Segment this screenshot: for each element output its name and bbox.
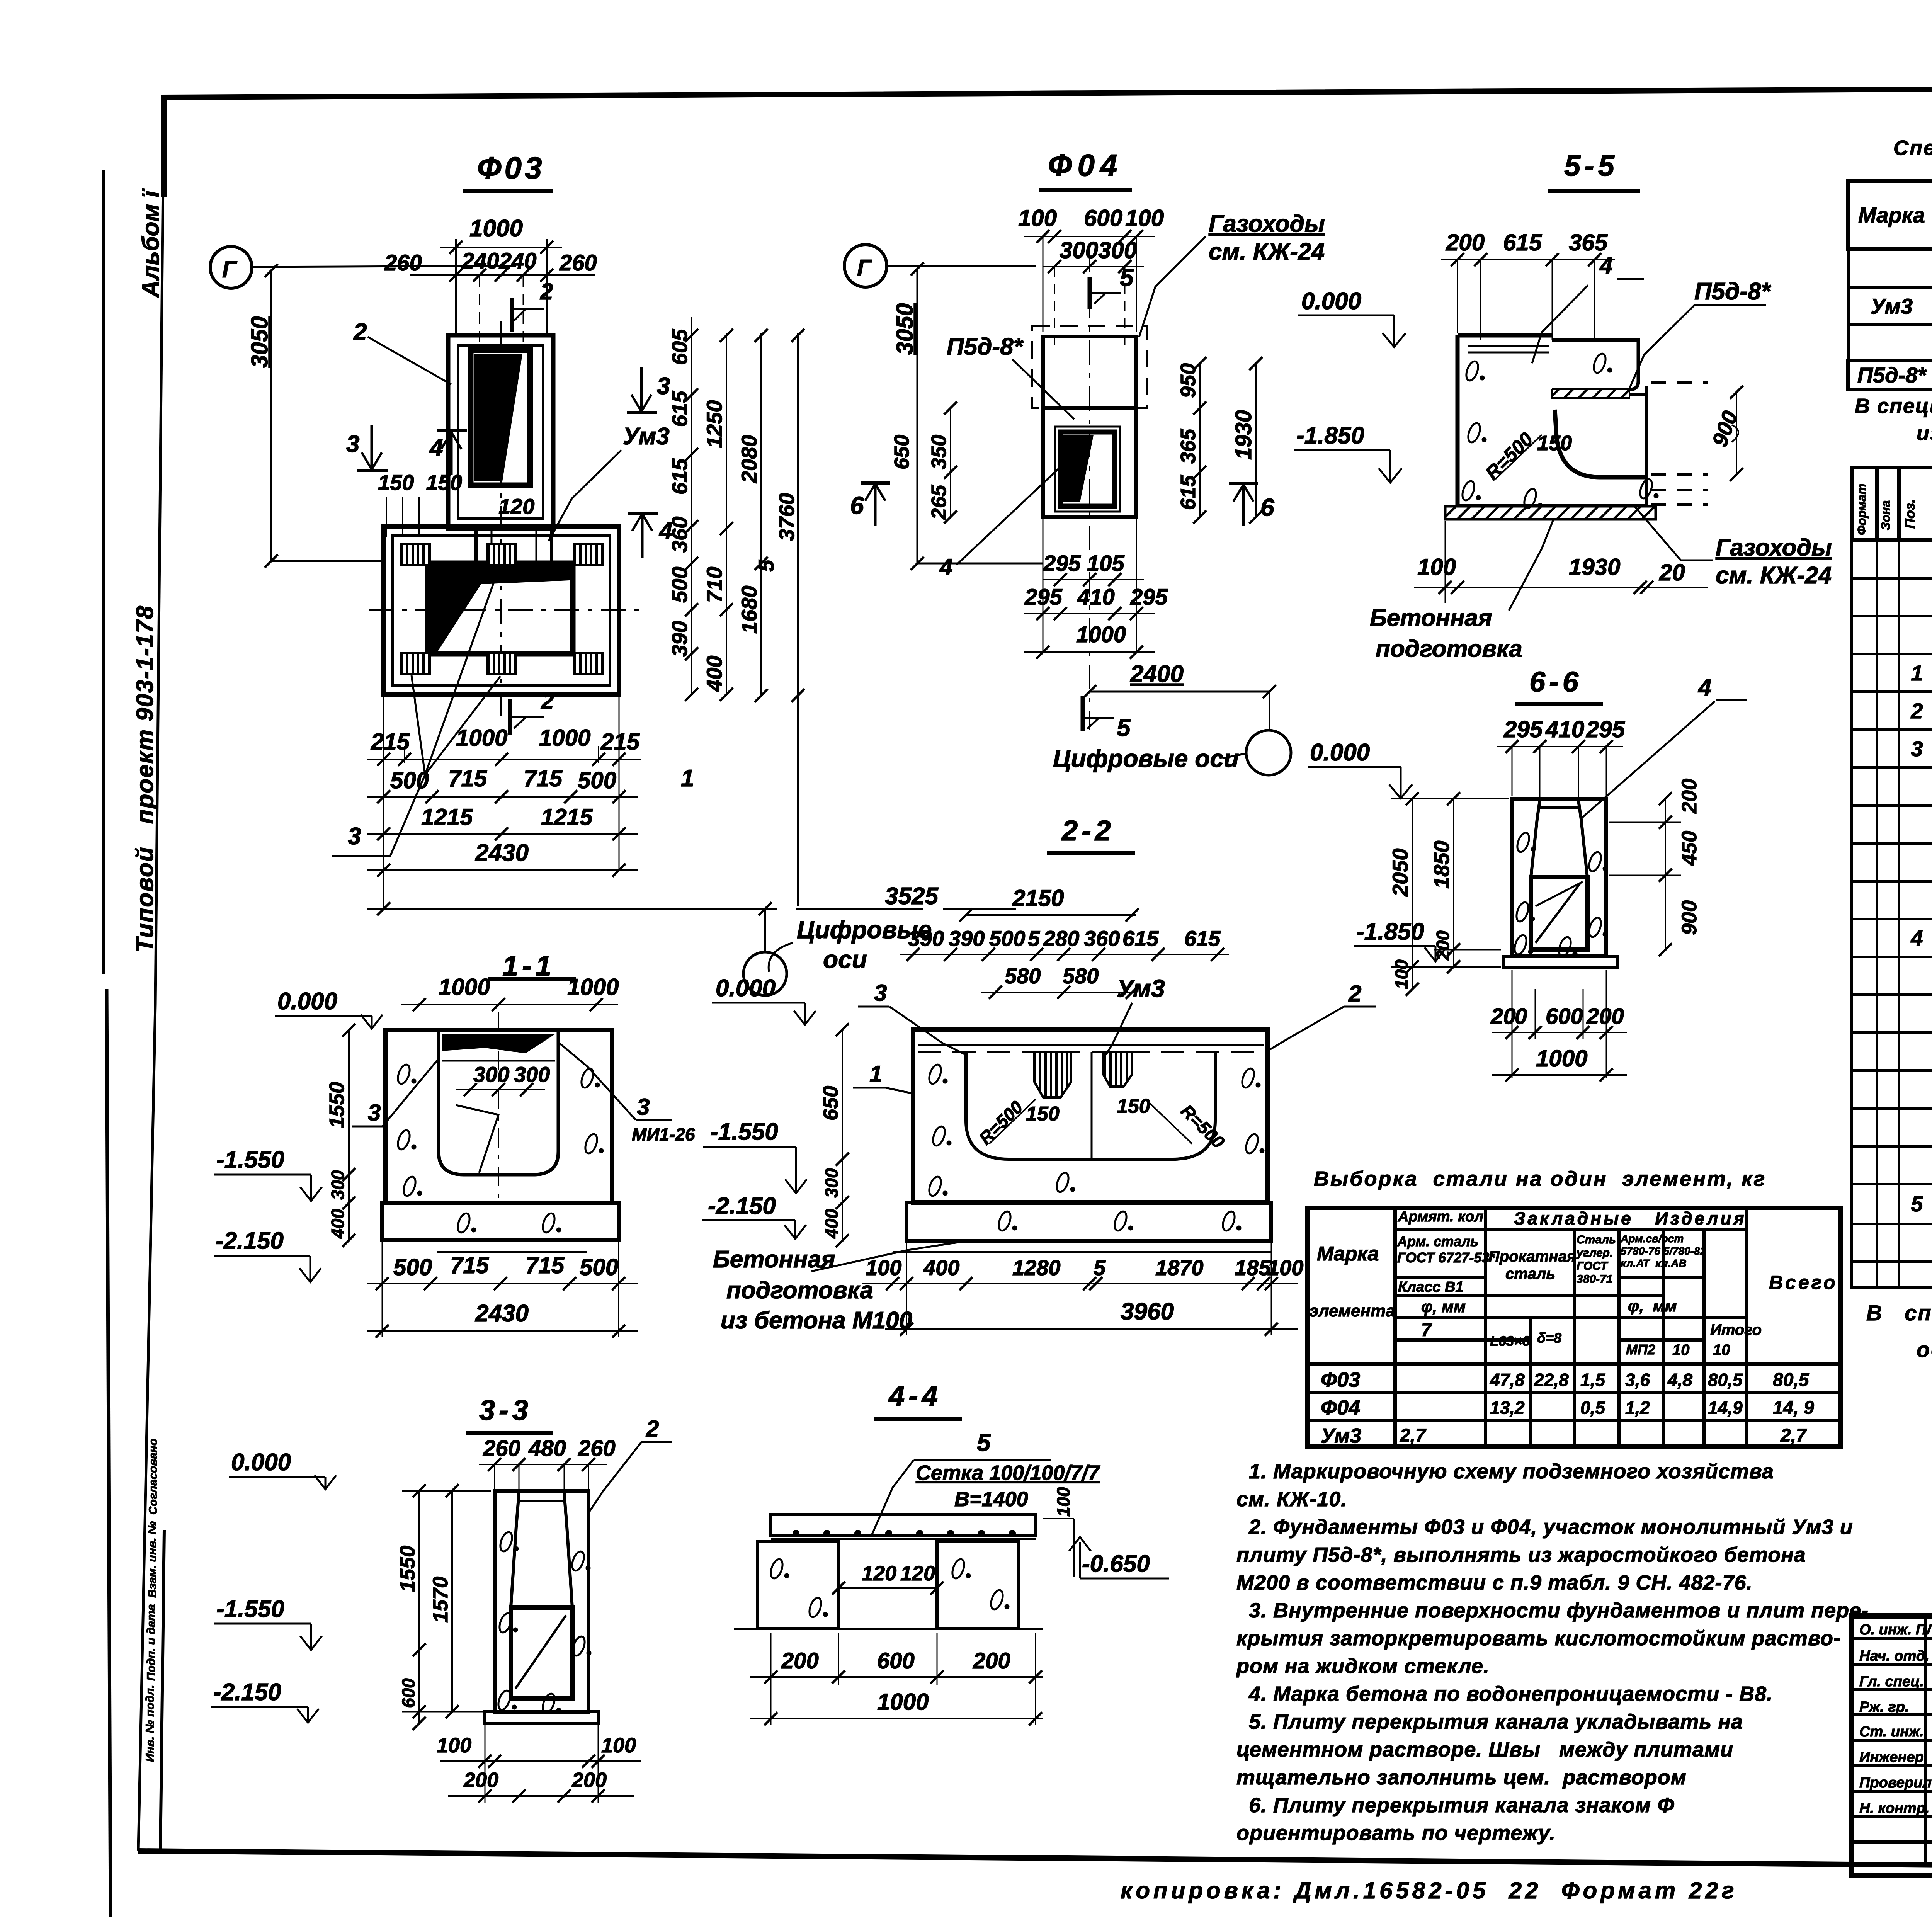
svg-text:900: 900 [1678,900,1701,935]
svg-text:см. КЖ-24: см. КЖ-24 [1209,238,1325,265]
svg-text:1930: 1930 [1231,410,1256,460]
svg-text:МИ1-26: МИ1-26 [632,1124,695,1145]
svg-text:П5д-8*: П5д-8* [947,333,1024,360]
svg-text:5: 5 [977,1429,991,1456]
svg-text:-1.850: -1.850 [1356,918,1424,945]
svg-text:1850: 1850 [1429,840,1454,889]
svg-text:100: 100 [1267,1255,1303,1280]
svg-text:500: 500 [580,1254,618,1280]
svg-text:1570: 1570 [429,1577,452,1623]
svg-text:950: 950 [1177,363,1200,398]
svg-text:100: 100 [1125,205,1164,231]
svg-text:615: 615 [1122,926,1159,951]
svg-text:265: 265 [927,485,951,520]
svg-text:5: 5 [1028,926,1040,951]
svg-text:580: 580 [1063,964,1099,988]
svg-text:360: 360 [1084,926,1120,951]
svg-text:480: 480 [528,1436,566,1461]
svg-text:0.000: 0.000 [1310,739,1370,766]
svg-text:100: 100 [437,1734,471,1757]
svg-text:200: 200 [1446,230,1485,255]
svg-text:-2.150: -2.150 [213,1679,281,1706]
svg-text:Цифровые: Цифровые [797,916,932,944]
svg-text:450: 450 [1678,831,1701,866]
svg-text:390: 390 [667,621,692,657]
svg-text:100: 100 [1053,1487,1073,1517]
svg-text:R=500: R=500 [1481,428,1537,484]
svg-text:600: 600 [1546,1004,1583,1029]
svg-text:Ум3: Ум3 [623,423,670,450]
svg-text:400: 400 [702,656,726,692]
svg-text:Ум3: Ум3 [1117,975,1165,1002]
svg-text:615: 615 [667,391,692,427]
svg-text:1000: 1000 [567,974,619,1000]
svg-text:120: 120 [900,1562,935,1585]
svg-text:710: 710 [702,567,726,603]
svg-text:4: 4 [1697,674,1711,701]
svg-text:-2.150: -2.150 [216,1228,284,1254]
svg-text:715: 715 [524,765,563,791]
svg-text:500: 500 [390,767,429,793]
svg-text:100: 100 [1417,554,1456,580]
svg-text:615: 615 [1184,926,1221,951]
svg-text:из бетона М100: из бетона М100 [721,1307,912,1334]
svg-text:-1.550: -1.550 [710,1119,778,1145]
svg-text:605: 605 [667,329,692,365]
svg-text:20: 20 [1659,560,1685,585]
svg-text:Газоходы: Газоходы [1716,534,1832,561]
svg-text:3: 3 [368,1100,381,1126]
svg-text:410: 410 [1077,585,1115,610]
svg-text:150: 150 [1537,432,1572,455]
svg-text:Ф04: Ф04 [1048,148,1122,182]
svg-text:Сетка 100/100/7/7: Сетка 100/100/7/7 [916,1461,1100,1485]
svg-text:1280: 1280 [1012,1255,1061,1280]
svg-text:Газоходы: Газоходы [1209,211,1325,237]
svg-text:260: 260 [483,1436,520,1461]
svg-text:6: 6 [1260,493,1274,521]
svg-text:0.000: 0.000 [1301,288,1361,315]
svg-text:580: 580 [1005,964,1041,988]
svg-text:3760: 3760 [774,493,799,541]
svg-text:1000: 1000 [469,215,523,242]
svg-text:200: 200 [1678,779,1701,814]
svg-text:3: 3 [874,980,887,1006]
svg-text:0.000: 0.000 [277,988,337,1015]
svg-text:715: 715 [448,765,488,791]
svg-text:6: 6 [850,492,864,519]
svg-text:360: 360 [667,517,692,553]
svg-text:5: 5 [1094,1255,1106,1280]
svg-text:3050: 3050 [247,316,272,368]
svg-text:2: 2 [541,688,554,714]
svg-text:215: 215 [371,729,410,755]
svg-text:R=500: R=500 [1177,1100,1229,1152]
svg-text:0: 0 [1515,1004,1527,1029]
svg-text:1550: 1550 [396,1546,419,1592]
svg-text:200: 200 [463,1769,498,1792]
svg-text:615: 615 [1503,230,1543,255]
svg-text:100: 100 [1391,959,1412,989]
svg-text:5: 5 [1117,714,1131,742]
svg-text:500: 500 [578,767,616,793]
svg-text:подготовка: подготовка [1376,636,1522,662]
svg-text:-1.850: -1.850 [1296,422,1364,449]
svg-text:365: 365 [1569,230,1608,255]
svg-text:400: 400 [821,1209,842,1239]
svg-text:Бетонная: Бетонная [713,1246,835,1273]
svg-text:600: 600 [398,1678,418,1708]
svg-text:150 150: 150 150 [378,470,462,495]
svg-text:см. КЖ-24: см. КЖ-24 [1716,562,1832,589]
svg-text:1: 1 [869,1061,882,1087]
svg-text:295 105: 295 105 [1043,551,1124,576]
svg-text:185: 185 [1235,1255,1271,1280]
svg-text:4: 4 [939,554,952,580]
svg-text:200: 200 [781,1648,819,1673]
svg-text:615: 615 [1177,475,1200,510]
svg-text:R=500: R=500 [975,1097,1027,1148]
svg-text:-2.150: -2.150 [708,1193,776,1219]
svg-text:1000: 1000 [539,725,590,751]
svg-text:2: 2 [540,279,553,304]
svg-text:650: 650 [890,435,913,469]
svg-text:Цифровые оси: Цифровые оси [1053,745,1239,772]
svg-text:215: 215 [600,729,640,755]
svg-text:500: 500 [989,926,1025,951]
svg-text:600: 600 [877,1648,915,1673]
svg-text:100: 100 [866,1255,901,1280]
svg-text:1000: 1000 [439,974,490,1000]
svg-text:1215: 1215 [421,804,473,830]
svg-text:260: 260 [578,1436,616,1461]
svg-text:3: 3 [348,823,361,850]
svg-text:1000: 1000 [877,1689,929,1715]
svg-text:1-1: 1-1 [502,950,555,982]
svg-text:600: 600 [1084,205,1122,231]
svg-text:Ф03: Ф03 [477,151,545,185]
svg-text:1870: 1870 [1155,1255,1204,1280]
svg-text:2: 2 [1348,981,1361,1007]
svg-text:2150: 2150 [1012,885,1064,911]
svg-text:3: 3 [346,431,359,457]
svg-text:400: 400 [923,1255,959,1280]
svg-text:200: 200 [1586,1004,1624,1029]
svg-text:500: 500 [393,1254,432,1280]
svg-text:5: 5 [1120,264,1134,291]
svg-text:1215: 1215 [541,804,593,830]
svg-text:1680: 1680 [737,585,761,634]
svg-text:295: 295 [1503,716,1543,742]
svg-text:6-6: 6-6 [1529,666,1582,698]
svg-text:3050: 3050 [892,303,918,355]
svg-text:120: 120 [862,1562,896,1585]
svg-text:280: 280 [1043,926,1079,951]
svg-text:Бетонная: Бетонная [1370,605,1492,631]
svg-text:100: 100 [601,1734,636,1757]
svg-text:2050: 2050 [1388,848,1412,897]
svg-text:4-4: 4-4 [888,1380,942,1412]
svg-text:1250: 1250 [702,400,726,448]
svg-text:1930: 1930 [1569,554,1620,580]
svg-text:0.000: 0.000 [231,1449,291,1476]
svg-text:В=1400: В=1400 [954,1488,1028,1511]
svg-text:500: 500 [667,567,692,603]
svg-text:5: 5 [754,560,778,572]
svg-text:2-2: 2-2 [1061,815,1115,847]
svg-text:2430: 2430 [475,1300,529,1327]
svg-text:650: 650 [819,1086,842,1121]
svg-text:2: 2 [646,1416,659,1442]
svg-text:П5д-8*: П5д-8* [1694,278,1772,305]
svg-text:подготовка: подготовка [726,1277,873,1304]
svg-text:1000: 1000 [1536,1046,1587,1071]
svg-text:Г: Г [857,255,872,281]
svg-text:1550: 1550 [325,1082,349,1128]
svg-text:390: 390 [949,926,985,951]
svg-text:2400: 2400 [1130,661,1184,687]
svg-text:2: 2 [353,319,367,345]
svg-text:1: 1 [681,765,694,792]
svg-text:295: 295 [1586,716,1626,742]
svg-text:295: 295 [1130,585,1168,610]
svg-text:120: 120 [498,494,534,519]
svg-text:2080: 2080 [737,435,761,483]
svg-text:3960: 3960 [1121,1298,1174,1325]
svg-text:260: 260 [384,250,422,276]
svg-text:240240: 240240 [461,248,537,274]
svg-text:400: 400 [328,1209,348,1239]
svg-text:615: 615 [667,458,692,495]
svg-text:300: 300 [821,1168,842,1198]
svg-text:350: 350 [927,435,951,469]
svg-text:0.000: 0.000 [716,975,776,1002]
svg-text:100: 100 [1018,205,1057,231]
svg-text:150: 150 [1117,1095,1150,1117]
svg-text:715: 715 [526,1252,565,1278]
svg-text:3: 3 [637,1094,650,1120]
svg-text:300: 300 [328,1170,348,1200]
svg-text:-1.550: -1.550 [216,1596,284,1622]
svg-text:3-3: 3-3 [479,1394,532,1426]
svg-text:-0.650: -0.650 [1082,1551,1150,1577]
svg-text:300300: 300300 [1060,237,1137,263]
svg-text:2430: 2430 [475,840,529,866]
svg-text:200: 200 [973,1648,1010,1673]
svg-text:1000: 1000 [1076,622,1126,647]
svg-text:5-5: 5-5 [1564,150,1618,182]
svg-text:4: 4 [1599,253,1612,279]
svg-text:3525: 3525 [885,883,939,910]
svg-text:410: 410 [1545,716,1584,742]
svg-text:260: 260 [559,250,597,276]
svg-text:оси: оси [823,946,867,973]
svg-text:150: 150 [1026,1103,1060,1125]
svg-text:365: 365 [1177,429,1200,464]
svg-text:715: 715 [450,1252,490,1278]
svg-text:Г: Г [222,257,238,282]
svg-text:200: 200 [571,1769,607,1792]
svg-text:1000: 1000 [456,725,507,751]
svg-text:-1.550: -1.550 [216,1146,284,1173]
